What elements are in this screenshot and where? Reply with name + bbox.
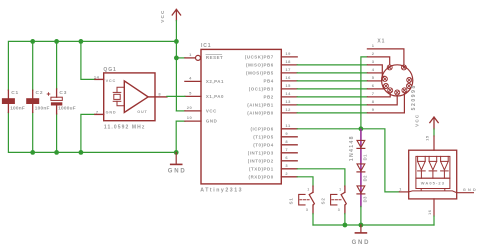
svg-text:OUT: OUT	[137, 110, 147, 114]
svg-text:8: 8	[285, 139, 288, 144]
wire reset to IC1 pin1	[176, 57, 185, 59]
led 2	[429, 156, 437, 178]
capacitor C3 polarized	[47, 89, 76, 114]
switch S2	[320, 186, 346, 214]
wire QG1 out to XTAL1	[167, 95, 185, 97]
svg-text:S2: S2	[320, 197, 325, 204]
pin 7 route	[367, 93, 390, 97]
svg-text:GND: GND	[106, 111, 117, 115]
node junction reset	[174, 56, 179, 61]
IC1 left pins	[185, 55, 201, 121]
pin 3 route	[367, 65, 385, 76]
wire PB5 to X1 pin4	[297, 72, 367, 74]
node junction QG1 gnd bottom	[79, 150, 84, 155]
op-amp oscillator QG1	[95, 73, 167, 121]
svg-text:7: 7	[372, 91, 375, 96]
IC1 right pins top group	[281, 57, 297, 113]
svg-text:1: 1	[399, 187, 402, 191]
svg-text:(UCSK)PB7: (UCSK)PB7	[245, 55, 274, 60]
svg-text:(AIN0)PB0: (AIN0)PB0	[247, 111, 273, 116]
svg-text:9: 9	[285, 131, 288, 136]
node junction diode top	[359, 126, 364, 131]
wire VCC top rail	[8, 41, 176, 90]
crystal inside QG1	[113, 87, 124, 105]
wire S2 to rail	[344, 214, 346, 225]
svg-text:PB2: PB2	[263, 95, 273, 100]
pin 1 route	[367, 49, 404, 65]
svg-text:(ICP)PD6: (ICP)PD6	[251, 127, 274, 132]
IC1 pin numbers right	[285, 51, 291, 176]
svg-text:(T0)PD4: (T0)PD4	[253, 143, 273, 148]
node junction C2 bottom	[30, 150, 35, 155]
wire PD6 to LED array	[297, 129, 399, 192]
wire LED array bottom to rail	[433, 216, 435, 225]
svg-text:(TXD)PD1: (TXD)PD1	[249, 167, 274, 172]
wire QG1 GND pin7	[81, 114, 95, 152]
svg-text:D1: D1	[363, 154, 368, 161]
wire IC1 pin10 GND	[176, 121, 185, 152]
led 3	[441, 156, 449, 178]
svg-text:6: 6	[372, 83, 375, 88]
wire bottom GND rail	[313, 224, 434, 226]
svg-text:13: 13	[285, 99, 291, 104]
svg-text:4: 4	[372, 67, 375, 72]
pin 9 route	[367, 93, 404, 113]
svg-text:S1: S1	[288, 197, 293, 204]
node junction S2 rail	[343, 223, 348, 228]
ground GND symbol 2	[352, 225, 371, 246]
svg-text:C1: C1	[11, 90, 19, 96]
svg-text:19: 19	[285, 51, 291, 56]
node junction VCC rail right	[174, 39, 179, 44]
svg-text:X1: X1	[377, 38, 385, 44]
svg-text:6: 6	[285, 155, 288, 160]
svg-text:14: 14	[285, 91, 291, 96]
wire VCC vertical to IC	[175, 21, 177, 111]
wire diode chain to rail	[360, 206, 362, 225]
svg-text:1000uF: 1000uF	[58, 105, 76, 110]
svg-text:C3: C3	[59, 90, 67, 96]
node junction C3 bottom	[54, 150, 59, 155]
svg-text:GND: GND	[168, 169, 187, 175]
svg-text:PB4: PB4	[263, 79, 273, 84]
LED array pins	[399, 191, 408, 193]
IC1 right pins bottom group	[281, 129, 297, 177]
switch S1	[288, 186, 314, 214]
pin 4 route	[367, 72, 382, 74]
svg-text:1N4148: 1N4148	[349, 135, 355, 161]
svg-text:3: 3	[338, 208, 341, 212]
node junction QG1 supply top	[79, 39, 84, 44]
node junction GND rail right	[174, 150, 179, 155]
svg-text:11: 11	[285, 123, 291, 128]
svg-text:16: 16	[285, 75, 291, 80]
svg-text:C2: C2	[36, 90, 44, 96]
svg-text:GND: GND	[206, 119, 217, 124]
node junction GND2 rail	[359, 223, 364, 228]
svg-text:(T1)PD5: (T1)PD5	[253, 135, 273, 140]
wire QG1 VCC pin14	[81, 41, 95, 79]
wire PB1 to X1 pin8	[297, 104, 367, 106]
svg-text:3: 3	[306, 208, 309, 212]
svg-text:7: 7	[285, 147, 288, 152]
diode D3	[357, 186, 368, 203]
diode D2	[357, 164, 368, 182]
svg-text:2: 2	[285, 171, 288, 176]
supply VCC arrow 2	[415, 114, 439, 141]
svg-text:11.0592 MHz: 11.0592 MHz	[104, 125, 146, 131]
svg-text:1: 1	[339, 187, 342, 191]
svg-text:(MISO)PB6: (MISO)PB6	[246, 63, 274, 68]
capacitor C1	[2, 90, 25, 112]
svg-text:18: 18	[285, 59, 291, 64]
connector X1 labels	[372, 43, 375, 112]
svg-text:IC1: IC1	[201, 43, 211, 49]
wire PB3 to X1 pin6	[297, 88, 367, 90]
svg-text:VCC: VCC	[415, 114, 420, 127]
node junction C3 top	[54, 39, 59, 44]
svg-text:VCC: VCC	[206, 108, 217, 113]
ground GND symbol 1	[168, 152, 187, 174]
svg-text:12: 12	[285, 107, 291, 112]
svg-text:(INT0)PD2: (INT0)PD2	[248, 159, 274, 164]
svg-text:15: 15	[425, 135, 430, 141]
wire PD0 to S1	[297, 177, 313, 186]
svg-text:14: 14	[94, 74, 100, 79]
wire PD1 to S2	[297, 169, 345, 186]
svg-text:2: 2	[372, 51, 375, 56]
svg-text:X1,PA0: X1,PA0	[206, 94, 224, 99]
wire VCC2 to LED array	[433, 129, 435, 136]
svg-text:D2: D2	[363, 175, 368, 182]
QG1 labels	[94, 67, 161, 131]
wire GND bottom rail	[8, 112, 176, 152]
wire PB2 to X1 pin7	[297, 96, 367, 98]
svg-text:3: 3	[285, 163, 288, 168]
svg-text:WA05-23: WA05-23	[421, 181, 445, 186]
svg-text:(INT1)PD3: (INT1)PD3	[248, 151, 274, 156]
svg-text:1: 1	[372, 43, 375, 48]
wire C2 vertical	[32, 41, 34, 90]
svg-text:X2,PA1: X2,PA1	[206, 79, 224, 84]
svg-text:GND: GND	[463, 188, 478, 192]
wire C3 vertical	[56, 41, 58, 89]
IC1 pin numbers left	[187, 52, 193, 120]
svg-text:8: 8	[372, 99, 375, 104]
svg-text:16: 16	[428, 210, 432, 215]
pin 5 route	[367, 80, 381, 82]
wire PB6 to X1 pin3	[297, 64, 367, 66]
svg-text:5: 5	[372, 75, 375, 80]
svg-text:ATtiny2313: ATtiny2313	[200, 188, 243, 194]
supply VCC arrow 1	[160, 9, 181, 22]
svg-text:RESET: RESET	[206, 55, 223, 60]
wire PB4 to X1 pin5	[297, 80, 367, 82]
svg-text:7: 7	[96, 109, 99, 114]
svg-text:5: 5	[189, 90, 192, 95]
svg-text:20: 20	[187, 105, 193, 110]
wire IC1 pin20 VCC	[176, 110, 185, 112]
svg-text:4: 4	[189, 75, 192, 80]
svg-text:15: 15	[285, 83, 291, 88]
svg-text:520998: 520998	[411, 84, 417, 110]
svg-text:(AIN1)PB1: (AIN1)PB1	[247, 103, 273, 108]
wire PB0 to X1 pin9	[297, 112, 367, 114]
diode D1	[349, 129, 368, 206]
svg-text:100nF: 100nF	[10, 105, 25, 110]
IC1 pin names right	[245, 55, 274, 180]
svg-text:1: 1	[189, 52, 192, 57]
svg-text:VCC: VCC	[106, 79, 116, 83]
connector X1 pads	[382, 65, 411, 95]
pin 8 route	[367, 95, 397, 105]
IC1 pin names left	[206, 54, 224, 123]
capacitor C2	[26, 90, 49, 112]
svg-text:VCC: VCC	[160, 9, 165, 22]
LED array U2	[399, 136, 473, 216]
node junction C2 top	[30, 39, 35, 44]
svg-text:17: 17	[285, 67, 291, 72]
svg-text:3: 3	[372, 59, 375, 64]
resistor network box	[416, 178, 450, 188]
svg-text:(RXD)PD0: (RXD)PD0	[249, 175, 274, 180]
pin 2 route	[367, 57, 389, 65]
connector X1 DIN socket	[367, 49, 412, 113]
svg-text:GND: GND	[352, 240, 371, 246]
svg-text:8: 8	[158, 91, 161, 96]
svg-text:100nF: 100nF	[35, 105, 50, 110]
IC U1 ATtiny2313 box	[201, 49, 281, 184]
svg-text:D3: D3	[363, 196, 368, 203]
led 1	[418, 156, 426, 178]
wire S1 to rail	[312, 214, 314, 225]
svg-text:9: 9	[372, 107, 375, 112]
wire X1 pin2 to diode node	[361, 57, 368, 129]
svg-text:10: 10	[187, 115, 193, 120]
svg-text:1: 1	[307, 187, 310, 191]
pin 6 route	[367, 86, 383, 89]
svg-text:(MOSI)PB5: (MOSI)PB5	[246, 71, 274, 76]
svg-text:(OC1)PB3: (OC1)PB3	[249, 87, 274, 92]
svg-text:QG1: QG1	[103, 67, 116, 73]
